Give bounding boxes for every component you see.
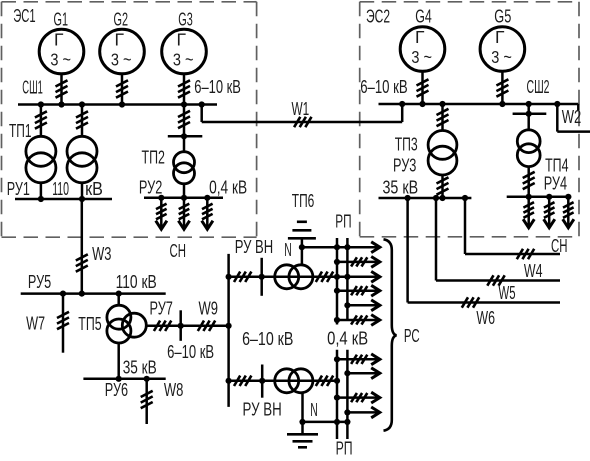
svg-text:W8: W8 — [164, 379, 184, 400]
svg-text:ЭС2: ЭС2 — [366, 6, 390, 27]
svg-text:W1: W1 — [292, 98, 310, 119]
svg-text:6–10 кВ: 6–10 кВ — [360, 76, 408, 97]
svg-text:РУ ВН: РУ ВН — [235, 236, 274, 257]
svg-text:РУ ВН: РУ ВН — [243, 398, 282, 419]
svg-text:G1: G1 — [54, 8, 69, 29]
svg-text:3 ~: 3 ~ — [411, 47, 432, 67]
svg-text:СН: СН — [170, 240, 187, 261]
svg-text:СШ2: СШ2 — [527, 76, 550, 97]
svg-text:0,4 кВ: 0,4 кВ — [327, 328, 368, 349]
svg-text:110 кВ: 110 кВ — [116, 271, 157, 292]
svg-text:РП: РП — [335, 210, 351, 231]
svg-text:ТП2: ТП2 — [142, 146, 165, 167]
svg-text:0,4 кВ: 0,4 кВ — [209, 176, 247, 197]
svg-text:ЭС1: ЭС1 — [13, 5, 35, 26]
svg-text:W4: W4 — [524, 260, 543, 281]
svg-text:G5: G5 — [494, 6, 511, 27]
svg-text:W5: W5 — [499, 282, 516, 303]
svg-text:W9: W9 — [199, 297, 219, 318]
svg-text:Г: Г — [415, 27, 425, 47]
svg-text:W2: W2 — [562, 106, 582, 127]
svg-text:РУ4: РУ4 — [544, 173, 567, 194]
svg-text:СШ1: СШ1 — [22, 77, 43, 98]
svg-text:N: N — [284, 239, 292, 260]
svg-text:3 ~: 3 ~ — [173, 50, 194, 70]
svg-text:Г: Г — [495, 27, 505, 47]
svg-text:35 кВ: 35 кВ — [383, 177, 419, 198]
svg-text:110: 110 — [52, 178, 69, 199]
svg-text:G2: G2 — [114, 8, 129, 29]
svg-text:6–10 кВ: 6–10 кВ — [167, 341, 214, 362]
svg-text:N: N — [310, 399, 318, 420]
svg-text:РУ7: РУ7 — [150, 297, 173, 318]
svg-text:ТП3: ТП3 — [395, 134, 418, 155]
svg-text:РП: РП — [336, 437, 353, 458]
svg-text:35 кВ: 35 кВ — [123, 356, 157, 377]
svg-text:Г: Г — [115, 30, 125, 50]
svg-text:3 ~: 3 ~ — [111, 50, 132, 70]
svg-text:W7: W7 — [26, 313, 45, 334]
svg-text:3 ~: 3 ~ — [50, 50, 71, 70]
svg-text:РУ6: РУ6 — [105, 379, 128, 400]
svg-text:ТП6: ТП6 — [292, 190, 315, 211]
svg-text:Г: Г — [54, 30, 64, 50]
svg-text:РС: РС — [404, 325, 420, 346]
svg-text:СН: СН — [551, 235, 568, 256]
svg-text:ТП5: ТП5 — [78, 313, 101, 334]
svg-text:РУ2: РУ2 — [139, 176, 162, 197]
svg-text:кВ: кВ — [85, 178, 103, 199]
svg-text:W3: W3 — [92, 243, 111, 264]
svg-text:6–10 кВ: 6–10 кВ — [194, 76, 241, 97]
svg-text:G3: G3 — [178, 8, 193, 29]
svg-text:W6: W6 — [476, 307, 495, 328]
svg-text:РУ1: РУ1 — [7, 178, 30, 199]
svg-text:Г: Г — [177, 30, 187, 50]
svg-text:6–10 кВ: 6–10 кВ — [242, 328, 293, 349]
svg-text:ТП1: ТП1 — [9, 120, 32, 141]
svg-text:РУ3: РУ3 — [393, 154, 416, 175]
svg-text:РУ5: РУ5 — [28, 271, 51, 292]
svg-text:G4: G4 — [415, 6, 432, 27]
svg-text:3 ~: 3 ~ — [491, 47, 512, 67]
